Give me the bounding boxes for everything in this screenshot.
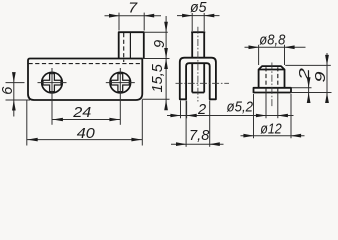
svg-text:2: 2 xyxy=(297,68,313,81)
svg-text:ø8,8: ø8,8 xyxy=(259,32,286,48)
svg-text:ø12: ø12 xyxy=(260,122,282,138)
svg-text:9: 9 xyxy=(313,72,329,83)
svg-text:2: 2 xyxy=(197,102,206,118)
svg-text:7,8: 7,8 xyxy=(189,128,210,144)
svg-text:9: 9 xyxy=(152,40,168,48)
svg-text:40: 40 xyxy=(77,126,95,142)
svg-text:24: 24 xyxy=(72,105,91,121)
svg-text:ø5,2: ø5,2 xyxy=(227,99,254,115)
svg-text:6: 6 xyxy=(0,86,16,95)
svg-text:7: 7 xyxy=(128,1,138,17)
svg-text:ø5: ø5 xyxy=(190,0,207,16)
svg-text:15,5: 15,5 xyxy=(150,63,166,92)
